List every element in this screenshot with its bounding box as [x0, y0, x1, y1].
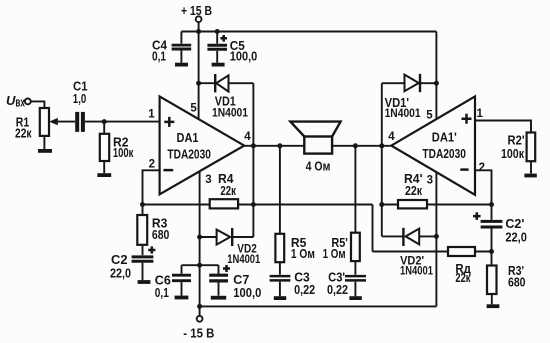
- wire pin 2': [475, 170, 492, 204]
- capacitor C6: [172, 275, 191, 281]
- wire C2 bottom lead: [142, 263, 144, 280]
- wire C6/C7 node: [182, 264, 219, 266]
- ground C4: [175, 63, 188, 67]
- svg-text:+ 15 В: + 15 В: [181, 3, 212, 18]
- wire C4 top lead: [180, 32, 182, 44]
- svg-text:22к: 22к: [15, 125, 32, 140]
- capacitor C5: [207, 35, 227, 49]
- wire speaker to DA1' output: [332, 145, 391, 147]
- junction VD1 cathode node: [196, 81, 201, 86]
- wire VD1' anode side: [382, 82, 405, 84]
- wire R2 bottom lead: [103, 161, 105, 173]
- junction DA1 output: [251, 143, 256, 148]
- wire R4 to corner: [238, 204, 372, 206]
- op-amp DA1': [391, 96, 475, 194]
- svg-text:1 Ом: 1 Ом: [291, 246, 315, 261]
- resistor Rd: [448, 247, 475, 256]
- wire -15V rail: [200, 305, 437, 307]
- wire DA1 output to speaker: [244, 145, 304, 147]
- svg-text:1,0: 1,0: [73, 91, 87, 106]
- svg-text:4: 4: [388, 131, 395, 143]
- junction C1/R2 node: [102, 119, 107, 124]
- wire pin 1' to R2': [475, 121, 531, 133]
- resistor R2: [100, 134, 109, 161]
- wire output riser right: [381, 83, 383, 236]
- wire C6 top lead: [181, 265, 183, 274]
- svg-text:1 Ом: 1 Ом: [323, 246, 346, 261]
- junction R4/output: [251, 202, 256, 207]
- svg-text:- 15 В: - 15 В: [183, 326, 214, 341]
- loudspeaker 4 Ohm: [290, 122, 340, 154]
- svg-text:3: 3: [427, 174, 433, 186]
- junction VD2' anode node: [434, 234, 439, 239]
- diode VD1': [405, 74, 421, 92]
- svg-text:100,0: 100,0: [233, 285, 261, 300]
- svg-text:22к: 22к: [455, 270, 470, 285]
- svg-text:5: 5: [426, 110, 433, 122]
- junction R5' tap: [353, 143, 358, 148]
- svg-text:4: 4: [244, 131, 251, 143]
- svg-text:TDA2030: TDA2030: [167, 146, 211, 161]
- wire R5' to C3': [354, 261, 356, 275]
- wire +15V top rail: [181, 31, 436, 33]
- wire Rd to node: [475, 251, 492, 253]
- ground R2': [524, 174, 536, 178]
- ground C5: [212, 63, 225, 67]
- svg-text:1N4001: 1N4001: [400, 266, 433, 278]
- svg-text:100к: 100к: [113, 145, 134, 160]
- svg-text:5: 5: [190, 102, 197, 114]
- svg-text:1N4001: 1N4001: [227, 254, 260, 266]
- svg-text:22,0: 22,0: [505, 229, 527, 244]
- wire pin 3' vertical: [435, 172, 437, 306]
- ground R1: [38, 149, 52, 153]
- diode VD2: [217, 228, 233, 246]
- resistor R2': [527, 133, 536, 162]
- ground C6: [175, 296, 189, 300]
- ground C2: [138, 280, 151, 284]
- wire VD2 cathode to riser: [232, 236, 253, 238]
- junction -15V node: [197, 304, 202, 309]
- resistor R3: [137, 205, 147, 245]
- svg-text:1N4001: 1N4001: [212, 107, 249, 119]
- wire VD2' anode side: [419, 235, 436, 237]
- capacitor C3': [345, 276, 366, 280]
- wire R3' top lead: [491, 252, 493, 266]
- wire C7 top lead: [218, 265, 220, 274]
- diode VD1: [215, 74, 228, 92]
- junction VD1' cathode node: [434, 81, 439, 86]
- svg-text:100,0: 100,0: [230, 49, 257, 64]
- node -15V terminal: [197, 306, 203, 321]
- svg-text:22к: 22к: [405, 183, 422, 198]
- svg-text:0,22: 0,22: [327, 282, 348, 297]
- junction C6/C7 node: [197, 263, 202, 268]
- junction rail/C5: [215, 29, 220, 34]
- capacitor C4: [172, 45, 192, 49]
- wire R2' bottom lead: [530, 161, 532, 173]
- wire C3 bottom lead: [279, 282, 281, 297]
- wire R5 to C3: [279, 262, 281, 275]
- wire feedback node to R4: [143, 204, 210, 206]
- resistor R1 (potentiometer): [40, 108, 75, 136]
- ground C3': [349, 296, 361, 300]
- wire +15V drop right side: [435, 32, 437, 119]
- svg-text:680: 680: [152, 227, 170, 242]
- junction pin2'/R4' node: [489, 202, 494, 207]
- ground C7: [211, 296, 226, 300]
- svg-text:22,0: 22,0: [110, 266, 131, 281]
- svg-text:0,22: 0,22: [294, 282, 315, 297]
- wire R3 to C2: [142, 245, 144, 255]
- ground R2: [97, 173, 111, 177]
- junction DA1' output: [379, 143, 384, 148]
- svg-text:100к: 100к: [501, 146, 524, 161]
- svg-text:TDA2030: TDA2030: [422, 146, 466, 161]
- wire C2' top lead: [491, 205, 493, 220]
- wire R5' drop: [354, 146, 356, 233]
- diode VD2': [403, 228, 419, 246]
- wire VD1 to output riser: [229, 82, 254, 84]
- resistor R5: [275, 234, 284, 262]
- resistor R4': [398, 200, 427, 208]
- junction R5 tap: [277, 143, 282, 148]
- wire R1 bottom lead: [43, 136, 45, 149]
- op-amp DA1: [160, 96, 245, 194]
- resistor R5': [351, 233, 360, 261]
- wire pin 2 to feedback node: [143, 170, 160, 204]
- wire R3' bottom lead: [491, 294, 493, 304]
- svg-text:4 Ом: 4 Ом: [306, 159, 331, 174]
- wire C5 top lead: [216, 32, 218, 44]
- wire R5 drop: [279, 146, 281, 234]
- wire Rd link bottom to Rd: [373, 251, 449, 253]
- svg-text:1: 1: [477, 108, 484, 120]
- capacitor C1: [77, 112, 83, 132]
- wire C5 bottom lead: [216, 51, 218, 63]
- resistor R3': [487, 266, 497, 295]
- junction feedback node: [140, 202, 145, 207]
- resistor R4: [210, 199, 238, 208]
- node +15V terminal: [196, 16, 202, 31]
- svg-text:1N4001: 1N4001: [385, 108, 422, 120]
- ground R3': [487, 304, 500, 308]
- svg-text:DA1: DA1: [177, 130, 199, 145]
- wire C3' bottom lead: [354, 282, 356, 297]
- wire R4' left: [382, 204, 398, 206]
- capacitor C2': [473, 212, 502, 227]
- wire C2' bottom lead: [491, 229, 493, 252]
- wire pin 3 vertical (-15V): [199, 171, 201, 306]
- wire C7 bottom lead: [218, 283, 220, 296]
- svg-text:2: 2: [479, 162, 485, 174]
- junction rail/main vertical: [196, 29, 201, 34]
- node Uin terminal: [25, 99, 31, 105]
- wire R4' right: [427, 204, 492, 206]
- junction VD2 anode node: [197, 235, 202, 240]
- wire Rd link drop: [372, 205, 374, 252]
- junction C2'/Rd/R3' node: [489, 249, 494, 254]
- wire input to R1 top: [31, 101, 45, 107]
- svg-text:22к: 22к: [220, 183, 236, 198]
- capacitor C3: [270, 276, 291, 280]
- junction R4' left node: [379, 202, 384, 207]
- wire C4 bottom lead: [180, 51, 182, 63]
- wire +15V vertical to pin 5: [198, 32, 200, 119]
- svg-text:DA1': DA1': [432, 130, 457, 145]
- svg-text:680: 680: [508, 274, 526, 289]
- wire VD2 anode side: [200, 236, 217, 238]
- svg-text:0,1: 0,1: [152, 48, 166, 63]
- svg-text:VD1: VD1: [215, 94, 236, 109]
- svg-text:0,1: 0,1: [155, 285, 169, 300]
- capacitor C7: [209, 265, 230, 281]
- capacitor C2: [132, 246, 156, 261]
- wire C6 bottom lead: [181, 282, 183, 296]
- wire output riser left (VD1-output-feedback-VD2): [252, 83, 254, 237]
- svg-text:вх: вх: [15, 95, 25, 110]
- svg-text:2: 2: [149, 159, 155, 171]
- ground C3: [274, 296, 286, 300]
- wire R2 top lead: [103, 122, 105, 134]
- svg-text:3: 3: [205, 174, 211, 186]
- label Uin: [6, 93, 25, 110]
- svg-text:1: 1: [148, 108, 155, 120]
- wire VD2' cathode side: [382, 235, 404, 237]
- wire VD1 anode side: [199, 82, 216, 84]
- wire C1 to DA1 pin 1: [85, 121, 160, 123]
- wire VD1' cathode side: [420, 82, 436, 84]
